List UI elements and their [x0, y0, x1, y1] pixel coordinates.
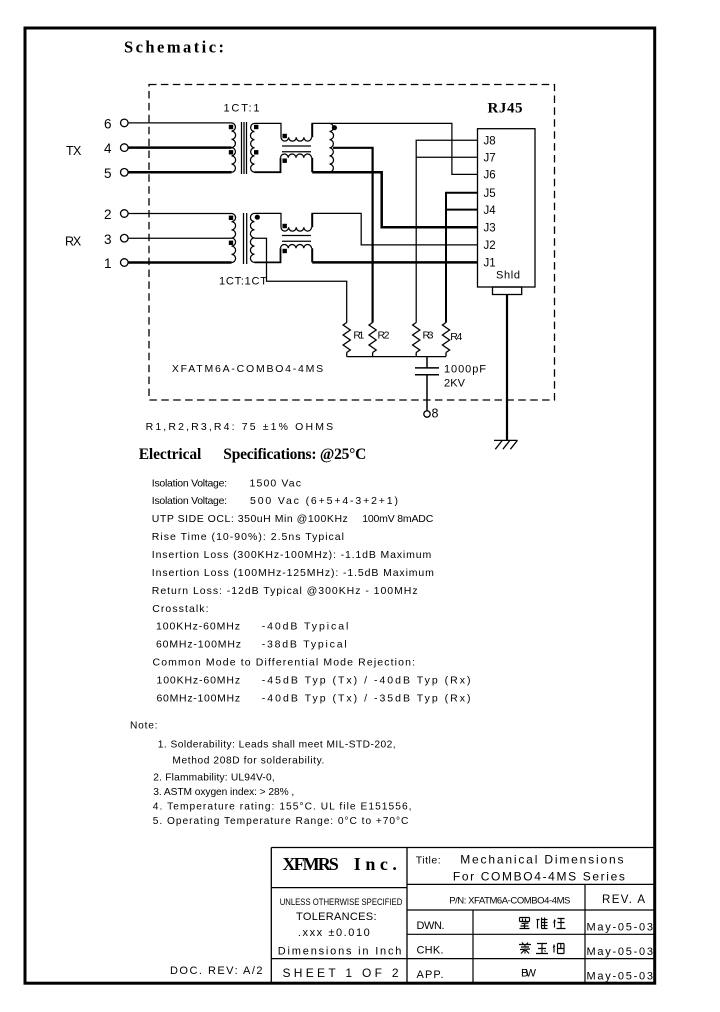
svg-text:100KHz-60MHz: 100KHz-60MHz: [156, 621, 240, 633]
svg-text:Note:: Note:: [130, 721, 158, 732]
svg-text:-40dB Typ (Tx) / -35dB Typ (Rx: -40dB Typ (Tx) / -35dB Typ (Rx): [262, 692, 471, 704]
title block row lines: [271, 884, 654, 958]
svg-text:SHEET 1 OF 2: SHEET 1 OF 2: [283, 966, 399, 980]
svg-text:Specifications: @25°C: Specifications: @25°C: [223, 446, 366, 463]
svg-text:May-05-03: May-05-03: [587, 922, 654, 934]
T1 primary polarity mark lower: [229, 150, 233, 154]
pin 3 terminal circle: [121, 234, 129, 242]
svg-text:TX: TX: [66, 144, 82, 158]
transformer T2 primary winding: [232, 214, 236, 263]
svg-text:3. ASTM oxygen index: > 28% ,: 3. ASTM oxygen index: > 28% ,: [153, 787, 294, 798]
svg-text:100mV 8mADC: 100mV 8mADC: [362, 513, 434, 525]
svg-text:5: 5: [104, 166, 112, 181]
svg-text:Insertion Loss (300KHz-100MHz): Insertion Loss (300KHz-100MHz): -1.1dB M…: [152, 549, 432, 561]
svg-text:J8: J8: [484, 135, 496, 147]
svg-text:1CT:1: 1CT:1: [224, 103, 260, 115]
choke L1 right riser up: [311, 123, 313, 137]
capacitor C1 leads and plates: [415, 357, 439, 411]
choke L1 top winding: [281, 137, 312, 141]
pin 1 terminal circle: [121, 259, 129, 267]
svg-text:BW: BW: [521, 968, 537, 980]
choke L1 core: [282, 146, 311, 152]
T1 secondary winding: [250, 123, 254, 172]
choke L2 top winding: [281, 227, 312, 231]
wire TX+ rail to RJ45 J6: [312, 123, 478, 174]
wire T2 center tap to R1: [255, 238, 347, 322]
choke L2 right riser up: [311, 213, 313, 227]
svg-text:CHK.: CHK.: [417, 945, 444, 957]
svg-text:Schematic:: Schematic:: [124, 38, 224, 57]
wire pin 1 to transformer primary: [128, 261, 231, 264]
signature column divider: [472, 910, 474, 983]
wire pin 5 to transformer primary: [128, 171, 231, 174]
svg-text:J2: J2: [484, 240, 496, 252]
wire pin 4 to transformer primary: [128, 146, 231, 149]
wire shield to chassis ground: [506, 295, 508, 441]
T1 primary polarity mark upper: [229, 125, 233, 129]
choke L2 bottom polarity mark: [283, 249, 287, 253]
DWN signature hanzi: [520, 918, 566, 929]
termination bus wire: [347, 356, 446, 358]
T1 secondary polarity mark lower: [254, 150, 258, 154]
title block left column divider: [271, 887, 407, 889]
svg-text:Dimensions in Inch: Dimensions in Inch: [278, 946, 402, 958]
svg-text:-40dB Typical: -40dB Typical: [262, 621, 349, 633]
svg-text:.xxx ±0.010: .xxx ±0.010: [298, 927, 370, 939]
svg-text:60MHz-100MHz: 60MHz-100MHz: [156, 639, 241, 651]
transformer T1 primary winding: [232, 123, 236, 172]
choke L2 top polarity mark: [283, 224, 287, 228]
svg-text:R1: R1: [353, 329, 364, 341]
T2 secondary polarity dot: [255, 215, 260, 220]
T2 primary polarity mark upper: [229, 216, 233, 220]
svg-text:XFMRS: XFMRS: [283, 854, 339, 874]
T2 primary polarity mark lower: [229, 241, 233, 245]
resistor R4: [442, 323, 449, 353]
svg-text:May-05-03: May-05-03: [587, 971, 654, 983]
svg-text:J7: J7: [484, 153, 496, 165]
svg-text:Electrical: Electrical: [139, 446, 202, 463]
svg-text:Isolation Voltage:: Isolation Voltage:: [152, 477, 227, 489]
svg-text:May-05-03: May-05-03: [587, 946, 654, 958]
svg-text:Shld: Shld: [496, 270, 520, 282]
svg-text:2: 2: [104, 207, 112, 222]
svg-text:RX: RX: [65, 234, 82, 248]
wire pin 3 to transformer primary: [128, 237, 231, 239]
T1 core: [242, 122, 247, 174]
svg-text:J6: J6: [484, 170, 496, 182]
pin 4 terminal circle: [121, 144, 129, 152]
svg-text:1000pF: 1000pF: [444, 364, 486, 376]
pin 2 terminal circle: [121, 210, 129, 218]
svg-text:5. Operating Temperature Range: 5. Operating Temperature Range: 0°C to +…: [153, 816, 409, 827]
dashed schematic boundary box: [149, 85, 555, 401]
choke L2 core: [282, 236, 311, 242]
svg-text:8: 8: [432, 406, 439, 420]
wire TX- rail to RJ45 J3: [312, 172, 477, 227]
svg-text:DWN.: DWN.: [417, 920, 445, 932]
svg-text:1. Solderability: Leads shall: 1. Solderability: Leads shall meet MIL-S…: [158, 740, 396, 751]
T2 secondary winding: [250, 213, 254, 262]
svg-text:Crosstalk:: Crosstalk:: [152, 603, 208, 615]
svg-text:R3: R3: [423, 329, 434, 341]
wire RJ45 J8/J7 to R3: [416, 140, 477, 322]
svg-text:Return Loss: -12dB Typical @30: Return Loss: -12dB Typical @300KHz - 100…: [152, 585, 418, 597]
svg-text:R4: R4: [450, 331, 462, 343]
svg-text:P/N: XFATM6A-COMBO4-4MS: P/N: XFATM6A-COMBO4-4MS: [449, 895, 570, 906]
AT1 polarity dot: [332, 125, 337, 130]
svg-text:J4: J4: [484, 205, 497, 217]
svg-text:60MHz-100MHz: 60MHz-100MHz: [157, 692, 241, 704]
svg-text:2KV: 2KV: [444, 378, 466, 390]
svg-text:3: 3: [104, 232, 112, 247]
wire pin 6 to transformer primary: [128, 122, 231, 124]
wire T2 secondary bottom to choke L2: [255, 248, 281, 262]
resistor R1: [343, 323, 350, 353]
choke L2 right riser down: [311, 248, 313, 262]
svg-text:4: 4: [104, 141, 112, 156]
T1 secondary polarity mark upper: [254, 125, 258, 129]
svg-text:RJ45: RJ45: [488, 101, 523, 117]
wire T2 secondary top to choke L2: [255, 213, 282, 227]
svg-text:Insertion Loss (100MHz-125MHz): Insertion Loss (100MHz-125MHz): -1.5dB M…: [152, 567, 434, 579]
choke L2 bottom winding: [281, 245, 312, 249]
title block outline: [271, 848, 654, 984]
svg-text:4. Temperature rating: 155°C.: 4. Temperature rating: 155°C. UL file E1…: [153, 802, 412, 813]
svg-text:Title:: Title:: [416, 855, 441, 867]
svg-text:500 Vac (6+5+4-3+2+1): 500 Vac (6+5+4-3+2+1): [250, 495, 398, 507]
svg-text:TOLERANCES:: TOLERANCES:: [296, 911, 377, 923]
svg-text:-45dB Typ (Tx) / -40dB Typ (Rx: -45dB Typ (Tx) / -40dB Typ (Rx): [262, 675, 471, 687]
svg-text:J1: J1: [484, 258, 496, 270]
svg-text:Rise Time (10-90%): 2.5ns Typi: Rise Time (10-90%): 2.5ns Typical: [152, 531, 344, 543]
choke L1 bottom winding: [281, 154, 312, 158]
svg-text:2. Flammability: UL94V-0,: 2. Flammability: UL94V-0,: [153, 773, 274, 784]
chassis ground symbol: [494, 440, 518, 449]
T2 core: [244, 213, 247, 264]
wire RX+ rail to RJ45 J2: [312, 213, 478, 245]
autotransformer winding AT1: [330, 123, 334, 172]
svg-text:UNLESS OTHERWISE SPECIFIED: UNLESS OTHERWISE SPECIFIED: [280, 897, 403, 907]
RJ45 shield tab: [493, 287, 522, 295]
svg-text:REV. A: REV. A: [602, 894, 645, 906]
svg-text:1CT:1CT: 1CT:1CT: [219, 276, 267, 288]
choke L1 top polarity mark: [283, 134, 287, 138]
wire RJ45 J5/J4 to R4: [446, 193, 478, 323]
wire RX- rail to RJ45 J1: [312, 261, 477, 264]
RJ45 connector box: [478, 129, 536, 287]
svg-text:1: 1: [104, 256, 112, 271]
svg-text:R2: R2: [378, 329, 390, 341]
choke L1 bottom polarity mark: [283, 159, 287, 163]
wire T1 secondary top to choke L1: [255, 123, 282, 137]
svg-text:J5: J5: [484, 188, 496, 200]
svg-text:UTP SIDE OCL: 350uH Min @100KH: UTP SIDE OCL: 350uH Min @100KHz: [152, 513, 348, 525]
choke L1 right riser down: [311, 158, 313, 173]
svg-text:Method 208D for solderability.: Method 208D for solderability.: [172, 756, 324, 767]
resistor R3: [413, 323, 420, 353]
svg-text:1500 Vac: 1500 Vac: [250, 477, 302, 489]
pin 6 terminal circle: [121, 119, 129, 127]
svg-text:6: 6: [104, 117, 112, 132]
svg-text:J3: J3: [484, 222, 496, 234]
REV/date column divider: [584, 884, 586, 983]
svg-text:-38dB Typical: -38dB Typical: [262, 639, 347, 651]
svg-text:Common Mode to Differential Mo: Common Mode to Differential Mode Rejecti…: [153, 657, 416, 669]
pin 5 terminal circle: [121, 169, 129, 177]
wire AT1 center tap to R2: [333, 148, 373, 323]
svg-text:R1,R2,R3,R4: 75 ±1% OHMS: R1,R2,R3,R4: 75 ±1% OHMS: [146, 421, 334, 433]
svg-text:Isolation Voltage:: Isolation Voltage:: [152, 495, 227, 507]
pin 8 terminal circle: [424, 411, 430, 417]
wire pin 2 to transformer primary: [128, 213, 231, 215]
wire T1 secondary bottom to choke L1: [255, 158, 281, 173]
CHK signature hanzi: [519, 943, 564, 954]
resistor R2: [369, 323, 376, 353]
svg-text:100KHz-60MHz: 100KHz-60MHz: [157, 675, 241, 687]
